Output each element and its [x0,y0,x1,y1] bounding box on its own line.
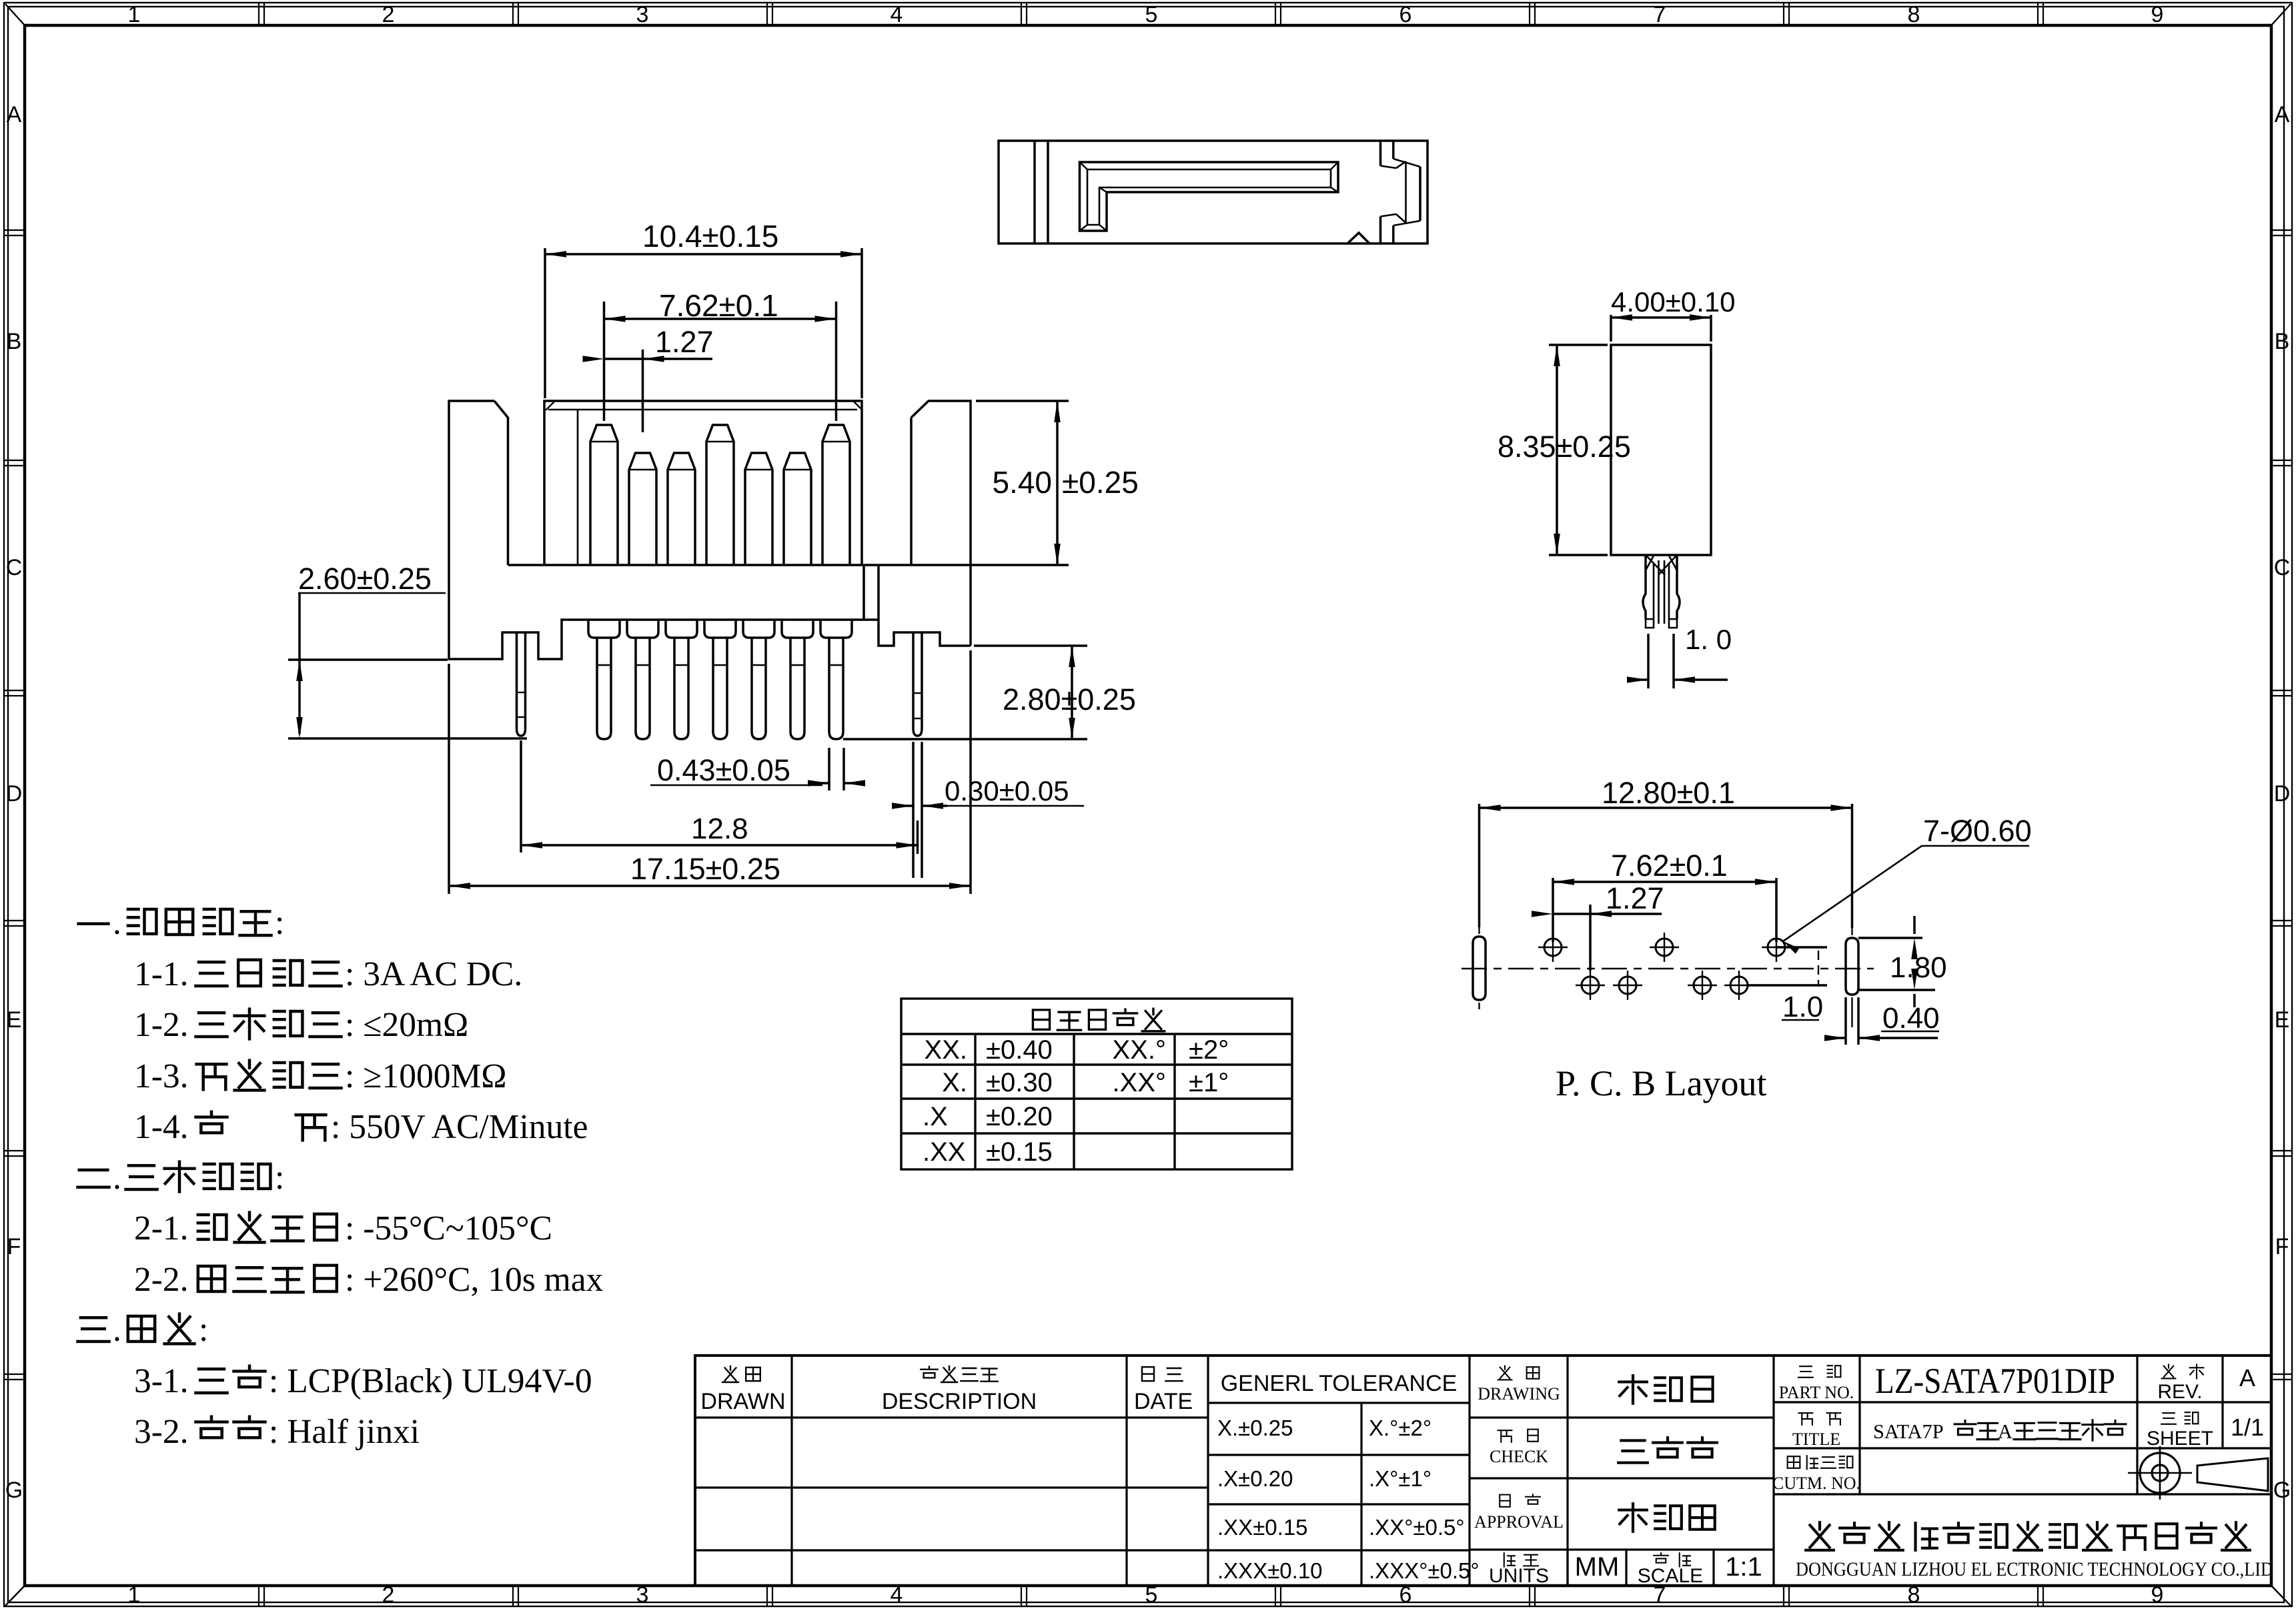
front view: dim 17.15±0.25 [448,664,450,894]
svg-text:7-Ø0.60: 7-Ø0.60 [1923,814,2032,848]
front view: lower pin 6 tail [790,638,804,739]
front view: lower pin 3 shoulder [666,620,697,638]
svg-text:REV.: REV. [2157,1381,2202,1403]
front view: lower pin 7 shoulder [820,620,852,638]
svg-text:3-2.: 3-2. [134,1413,189,1451]
corner diagonals [5,4,25,26]
svg-text:7: 7 [1654,2,1666,27]
svg-text:4: 4 [891,2,903,27]
svg-text:GENERL TOLERANCE: GENERL TOLERANCE [1221,1371,1458,1396]
svg-text:.: . [113,1159,121,1197]
svg-text:: LCP(Black) UL94V-0: : LCP(Black) UL94V-0 [269,1362,592,1400]
front view: lower pin 4 tail [713,638,727,739]
svg-text:A: A [2239,1364,2255,1392]
front view: housing corner chamfer lines [546,402,554,410]
svg-text:MM: MM [1575,1552,1620,1582]
svg-text:±0.20: ±0.20 [986,1102,1053,1131]
title block projection symbol [2140,1453,2180,1493]
title block company [1806,1522,1834,1550]
pcb: dim 7.62±0.1 [1552,878,1554,942]
front view: lower pin 2 tail [636,638,650,739]
svg-text:1.80: 1.80 [1890,951,1947,984]
svg-text:0.30±0.05: 0.30±0.05 [945,775,1069,807]
svg-text:A: A [1998,1420,2013,1443]
front view: dim 10.4±0.15 [544,248,546,398]
svg-text:9: 9 [2151,2,2164,27]
svg-text:CHECK: CHECK [1490,1447,1548,1466]
pcb: dim 1.80 [1858,937,1922,939]
tolerance table 未标注公差 [901,999,1292,1169]
svg-text:2: 2 [382,1582,395,1608]
svg-text:±0.25: ±0.25 [1062,465,1139,500]
front view: upper pin 4 [706,425,734,565]
pcb: dim 12.80±0.1 [1478,804,1481,927]
notes: electrical/physical/material properties [79,923,109,925]
svg-text:3: 3 [636,2,649,27]
side view: pin crossing diagonals [1646,556,1665,575]
front view: lower pin 3 tail [674,638,688,739]
svg-text:±2°: ±2° [1189,1035,1229,1065]
pcb: holes bottom row [1582,977,1599,994]
svg-text:1/1: 1/1 [2231,1414,2264,1441]
svg-text:12.8: 12.8 [691,813,748,845]
svg-text:2.80±0.25: 2.80±0.25 [1003,682,1136,716]
svg-text:0.40: 0.40 [1882,1002,1940,1035]
svg-text:2-2.: 2-2. [134,1261,189,1299]
svg-text:G: G [5,1478,23,1503]
svg-text:XX.°: XX.° [1113,1035,1166,1065]
svg-text:D: D [2274,781,2291,807]
pcb: dim 1.27 [1589,905,1592,971]
svg-text:X.°±2°: X.°±2° [1369,1416,1431,1440]
front view: lower pin 1 shoulder [588,620,620,638]
svg-text:8: 8 [1908,2,1920,27]
front view: dim 2.80±0.25 [974,644,1087,647]
top view: V notch on bottom edge [1347,233,1369,243]
front view: housing inner top line [548,409,857,411]
front view: lower pin 4 shoulder [704,620,736,638]
svg-text:4.00±0.10: 4.00±0.10 [1611,286,1736,318]
svg-text:B: B [7,329,22,354]
svg-text:5: 5 [1145,2,1158,27]
title block part no [1798,1366,1813,1378]
svg-text:TITLE: TITLE [1792,1430,1840,1449]
svg-text:F: F [7,1234,21,1259]
front view: ear chamfer left [494,401,508,565]
front view: upper pin 3 [668,453,695,565]
svg-text:.X±0.20: .X±0.20 [1217,1466,1293,1491]
zone tick marks left/right [4,229,25,231]
title block names [1619,1376,1647,1404]
svg-text:CUTM. NO.: CUTM. NO. [1772,1474,1860,1493]
front view: upper pin 7 [822,425,850,565]
svg-text:3-1.: 3-1. [134,1362,189,1400]
zone tick marks top/bottom [258,3,259,25]
svg-text:: ≥1000MΩ: : ≥1000MΩ [345,1057,507,1095]
svg-text:B: B [2275,329,2290,354]
svg-text:±0.40: ±0.40 [986,1035,1053,1065]
svg-text:UNITS: UNITS [1489,1565,1549,1587]
top view: left double line [1033,141,1036,243]
front view: upper pin 2 [629,453,656,565]
svg-text:1: 1 [128,1582,141,1608]
front view: upper pin 6 [784,453,811,565]
svg-text:A: A [2275,102,2290,127]
svg-text:7.62±0.1: 7.62±0.1 [659,288,778,323]
svg-text:PART NO.: PART NO. [1779,1383,1854,1402]
svg-text:±0.15: ±0.15 [986,1137,1053,1167]
svg-text::: : [275,1159,284,1197]
svg-text::: : [275,904,284,942]
svg-text:1-2.: 1-2. [134,1006,189,1044]
svg-text:: 550V AC/Minute: : 550V AC/Minute [331,1108,588,1146]
svg-text:C: C [2274,555,2291,580]
svg-text:E: E [7,1007,22,1033]
svg-text:±1°: ±1° [1189,1068,1229,1097]
front view: lower pin 5 shoulder [743,620,774,638]
svg-text:.X: .X [923,1102,948,1131]
front view: left board-lock pin [517,632,526,736]
svg-text:12.80±0.1: 12.80±0.1 [1602,776,1735,810]
front view: body outline left ear [449,401,864,659]
svg-text:DRAWN: DRAWN [700,1389,785,1414]
svg-text:6: 6 [1399,2,1412,27]
svg-text:: 3A AC DC.: : 3A AC DC. [345,955,522,993]
svg-text:X.±0.25: X.±0.25 [1217,1416,1293,1440]
front view: lower pin 7 tail [829,638,843,739]
svg-text:: +260°C, 10s max: : +260°C, 10s max [345,1261,604,1299]
front view: ledge segment right [864,618,879,621]
svg-text:DONGGUAN LIZHOU EL ECTRONIC TE: DONGGUAN LIZHOU EL ECTRONIC TECHNOLOGY C… [1796,1558,2273,1580]
svg-text:1-3.: 1-3. [134,1057,189,1095]
svg-text:10.4±0.15: 10.4±0.15 [642,219,778,253]
side view: body rectangle [1611,345,1711,555]
front view: lower pin 2 shoulder [627,620,658,638]
svg-text:: Half jinxi: : Half jinxi [269,1413,420,1451]
svg-text:XX.: XX. [925,1035,967,1065]
front view: dim 7.62±0.1 [603,302,606,421]
front view: lower pin 5 tail [752,638,766,739]
svg-text:SCALE: SCALE [1638,1565,1703,1587]
top view: L-shaped slot inner bevel [1087,169,1331,225]
svg-text:1.27: 1.27 [655,325,714,359]
svg-text:.XXX±0.10: .XXX±0.10 [1217,1558,1323,1583]
svg-text:E: E [2275,1007,2290,1033]
svg-text:1. 0: 1. 0 [1685,624,1732,655]
svg-text:1:1: 1:1 [1725,1552,1762,1582]
svg-text:.XX±0.15: .XX±0.15 [1217,1515,1308,1540]
svg-text:: -55°C~105°C: : -55°C~105°C [345,1209,552,1247]
front view: lower pin 6 shoulder [782,620,813,638]
svg-text:.X°±1°: .X°±1° [1369,1466,1431,1491]
top view: slot bevel corner diagonals [1080,162,1088,169]
svg-text:2-1.: 2-1. [134,1209,189,1247]
svg-text:2.60±0.25: 2.60±0.25 [298,562,432,596]
svg-text:F: F [2275,1234,2289,1259]
svg-text:2: 2 [382,2,395,27]
svg-text:P. C. B Layout: P. C. B Layout [1556,1063,1767,1103]
front view: housing upper outline [544,401,862,565]
top view: right latch pocket [1379,141,1382,166]
svg-text:±0.30: ±0.30 [986,1068,1053,1097]
svg-text:DESCRIPTION: DESCRIPTION [882,1389,1037,1414]
svg-text:SATA7P: SATA7P [1873,1420,1944,1443]
pcb: center dashed line [1462,968,1874,970]
svg-text:1: 1 [128,2,141,27]
svg-text:: ≤20mΩ: : ≤20mΩ [345,1006,468,1044]
svg-text:3: 3 [636,1582,649,1608]
svg-text::: : [199,1311,208,1349]
svg-text:X.: X. [942,1068,967,1097]
side view: pin claw [1643,555,1646,619]
svg-text:A: A [7,102,22,127]
svg-text:.XXX°±0.5°: .XXX°±0.5° [1369,1558,1480,1583]
svg-text:17.15±0.25: 17.15±0.25 [630,852,780,886]
svg-text:DATE: DATE [1134,1389,1193,1414]
pcb: dim 1.0 (row offset) [1776,946,1827,949]
svg-text:.: . [113,904,121,942]
svg-text:8.35±0.25: 8.35±0.25 [1498,430,1631,464]
front view: housing inner left wall line [577,410,579,565]
svg-text:1-4.: 1-4. [134,1108,189,1146]
front view: dim 12.8 [520,740,522,853]
svg-text:APPROVAL: APPROVAL [1474,1512,1564,1532]
svg-text:1.0: 1.0 [1782,991,1823,1023]
svg-text:G: G [2273,1478,2291,1503]
pcb: left slot [1473,937,1486,1000]
side view: dim 8.35±0.25 [1549,344,1608,346]
top view: L-shaped slot outer [1080,162,1339,231]
pcb: holes top row [1544,939,1562,956]
top view: connector housing outline [999,141,1427,243]
front view: upper pin 5 [745,453,772,565]
svg-text:.XX°±0.5°: .XX°±0.5° [1369,1515,1465,1540]
title block middle labels [1498,1366,1512,1380]
front view: lower pin 1 tail [597,638,611,739]
front view: upper pin 1 [590,425,618,565]
title block frame [695,1356,2271,1586]
pcb: right slot [1846,938,1858,995]
svg-text:.XX: .XX [923,1137,965,1167]
front view: dim 5.40±0.25 [976,400,1069,402]
front view: right ear [911,401,971,646]
title block left header [722,1366,738,1382]
front view: housing floor line [508,564,1069,566]
svg-text:1-1.: 1-1. [134,955,189,993]
svg-text:.: . [113,1311,121,1349]
front view: dim 1.27 [642,350,644,432]
side view: dim 1.0 [1647,634,1650,688]
title block rev/sheet [2162,1365,2176,1379]
svg-text:DRAWING: DRAWING [1478,1384,1560,1404]
svg-text:C: C [6,555,23,580]
svg-text:1.27: 1.27 [1606,881,1664,915]
svg-text:SHEET: SHEET [2147,1428,2213,1450]
svg-text:5.40: 5.40 [992,465,1052,500]
svg-text:0.43±0.05: 0.43±0.05 [657,753,790,787]
svg-text:D: D [6,781,23,807]
svg-text:7.62±0.1: 7.62±0.1 [1611,849,1728,883]
svg-text:.XX°: .XX° [1113,1068,1166,1097]
svg-text:LZ-SATA7P01DIP: LZ-SATA7P01DIP [1875,1361,2115,1401]
front view: right board-lock pin [913,632,922,736]
front view: bottom profile right [879,620,971,646]
